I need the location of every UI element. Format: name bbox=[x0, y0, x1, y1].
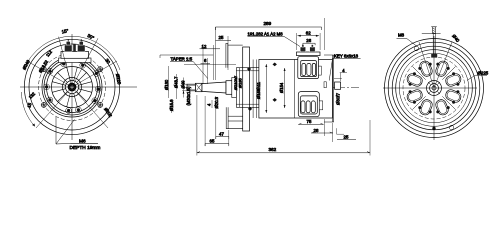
svg-text:(M30x1.5): (M30x1.5) bbox=[186, 86, 191, 105]
svg-text:47: 47 bbox=[219, 131, 224, 136]
svg-text:289: 289 bbox=[264, 21, 272, 26]
svg-text:65: 65 bbox=[210, 139, 215, 144]
svg-text:Ø154: Ø154 bbox=[279, 82, 284, 93]
svg-text:362: 362 bbox=[269, 147, 277, 152]
svg-text:Ø30f7: Ø30f7 bbox=[336, 92, 341, 105]
svg-text:Ø158h11: Ø158h11 bbox=[256, 81, 261, 99]
svg-text:KEY 6x6x18: KEY 6x6x18 bbox=[334, 53, 359, 58]
svg-text:12: 12 bbox=[202, 44, 207, 49]
svg-text:Ø180: Ø180 bbox=[164, 79, 169, 90]
svg-text:Ø48.7: Ø48.7 bbox=[174, 76, 179, 88]
svg-text:26: 26 bbox=[306, 38, 311, 43]
svg-text:M6: M6 bbox=[79, 138, 86, 144]
svg-text:Ø20.8: Ø20.8 bbox=[214, 96, 219, 108]
svg-text:M8: M8 bbox=[398, 32, 405, 37]
svg-text:62: 62 bbox=[306, 30, 311, 35]
svg-text:28: 28 bbox=[314, 128, 319, 133]
svg-text:Ø225: Ø225 bbox=[478, 71, 489, 76]
svg-text:TAPER 1:5: TAPER 1:5 bbox=[171, 56, 193, 61]
svg-text:75: 75 bbox=[307, 119, 312, 124]
svg-text:191.282 A1 A2 M8: 191.282 A1 A2 M8 bbox=[248, 31, 284, 36]
svg-text:25: 25 bbox=[344, 135, 349, 140]
svg-text:DEPTH 19mm: DEPTH 19mm bbox=[70, 145, 101, 151]
svg-text:Ø195: Ø195 bbox=[238, 77, 243, 88]
svg-text:25: 25 bbox=[219, 35, 224, 40]
